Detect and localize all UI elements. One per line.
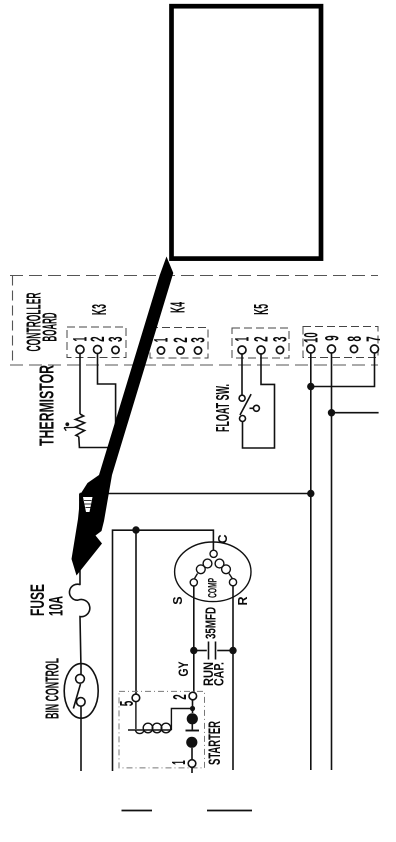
svg-text:3: 3 bbox=[189, 337, 210, 343]
wire below bin control bbox=[80, 706, 82, 771]
starter contact lower bbox=[186, 737, 197, 748]
wire pin7 down and left bbox=[311, 353, 375, 387]
terminal R bbox=[229, 579, 236, 586]
thermistor zigzag bbox=[75, 414, 84, 437]
top horizontal wire bbox=[80, 493, 311, 495]
svg-text:3: 3 bbox=[271, 337, 292, 343]
junction node cap R side bbox=[229, 647, 236, 654]
starter coil bbox=[128, 702, 190, 734]
side contact stub bbox=[250, 407, 254, 409]
junction node pin9 branch bbox=[328, 409, 335, 416]
svg-text:8: 8 bbox=[345, 336, 366, 342]
wire from pin9 node to right bbox=[332, 412, 379, 414]
svg-text:7: 7 bbox=[364, 336, 385, 342]
switch bottom contact bbox=[240, 416, 246, 422]
wire K3.1 to thermistor top bbox=[79, 354, 81, 415]
starter terminal 2 bbox=[189, 692, 197, 700]
float switch bbox=[239, 354, 274, 448]
junction node starter feed bbox=[132, 526, 139, 533]
arrow notch detail bbox=[83, 497, 93, 512]
compressor motor bbox=[175, 542, 251, 602]
svg-text:GY: GY bbox=[175, 661, 191, 676]
switch lever bbox=[240, 394, 251, 415]
arrow bbox=[72, 257, 174, 576]
junction node pin7/pin10 bbox=[307, 383, 314, 390]
terminal C bbox=[210, 550, 217, 557]
svg-text:BOARD: BOARD bbox=[40, 313, 62, 342]
wire pin10 down bbox=[310, 353, 312, 770]
svg-text:1: 1 bbox=[152, 338, 173, 343]
connector J2 pins 10-7 bbox=[301, 327, 385, 358]
svg-text:BIN CONTROL: BIN CONTROL bbox=[42, 658, 62, 719]
svg-text:K4: K4 bbox=[168, 302, 190, 313]
svg-text:K5: K5 bbox=[251, 304, 273, 315]
svg-text:35MFD: 35MFD bbox=[202, 607, 219, 639]
svg-text:2: 2 bbox=[252, 336, 273, 342]
bottom rule left bbox=[122, 810, 153, 812]
controller board label bbox=[24, 292, 62, 351]
connector K5 bbox=[232, 304, 292, 358]
svg-text:2: 2 bbox=[170, 694, 190, 700]
svg-text:FLOAT SW.: FLOAT SW. bbox=[213, 384, 233, 432]
svg-text:COMP: COMP bbox=[206, 578, 220, 598]
svg-text:1: 1 bbox=[233, 337, 254, 342]
run capacitor bbox=[194, 642, 233, 660]
wire K3.2 loop bbox=[98, 354, 116, 448]
winding C-R bbox=[215, 559, 224, 568]
starter contact upper bbox=[187, 713, 198, 724]
svg-text:CAP.: CAP. bbox=[212, 662, 227, 686]
wire thermistor bottom bbox=[79, 437, 116, 448]
svg-text:9: 9 bbox=[323, 335, 344, 341]
thermistor t-dot mark bbox=[64, 422, 75, 430]
left drop wire to fuse bbox=[79, 494, 81, 585]
switch top contact bbox=[239, 395, 245, 401]
svg-text:1: 1 bbox=[169, 760, 189, 765]
bin control switch bbox=[64, 664, 98, 771]
wires from pins 10 9 7 bbox=[80, 353, 379, 770]
R wire down bbox=[232, 586, 234, 770]
controller board dashed outline bbox=[10, 276, 378, 366]
connector K4 bbox=[150, 302, 210, 358]
svg-text:THERMISTOR: THERMISTOR bbox=[37, 365, 59, 446]
wire K5.1 to switch bbox=[241, 354, 243, 395]
winding C-S bbox=[203, 559, 212, 568]
terminal S bbox=[190, 579, 197, 586]
svg-text:K3: K3 bbox=[89, 304, 111, 315]
svg-text:S: S bbox=[171, 596, 185, 604]
bottom rule right bbox=[207, 810, 252, 812]
svg-text:10A: 10A bbox=[46, 596, 67, 616]
thermistor wires and element bbox=[75, 354, 115, 448]
switch side contact bbox=[253, 405, 259, 411]
second horizontal wire bbox=[113, 530, 214, 771]
svg-text:STARTER: STARTER bbox=[205, 721, 224, 765]
junction node top wire/pin10 bbox=[307, 490, 314, 497]
junction node cap S side bbox=[190, 647, 197, 654]
S wire down bbox=[193, 586, 195, 693]
svg-text:3: 3 bbox=[106, 337, 127, 343]
wire pin9 down bbox=[331, 353, 333, 770]
callout box bbox=[172, 6, 322, 258]
wire to starter 5 bbox=[135, 530, 137, 694]
svg-text:R: R bbox=[236, 596, 250, 605]
wire switch to K5.2 loop bbox=[243, 354, 275, 448]
fuse element bbox=[69, 584, 89, 664]
connector K3 bbox=[67, 304, 127, 357]
starter box bbox=[119, 691, 205, 768]
svg-text:10: 10 bbox=[301, 332, 322, 343]
coil junction node bbox=[190, 706, 195, 711]
